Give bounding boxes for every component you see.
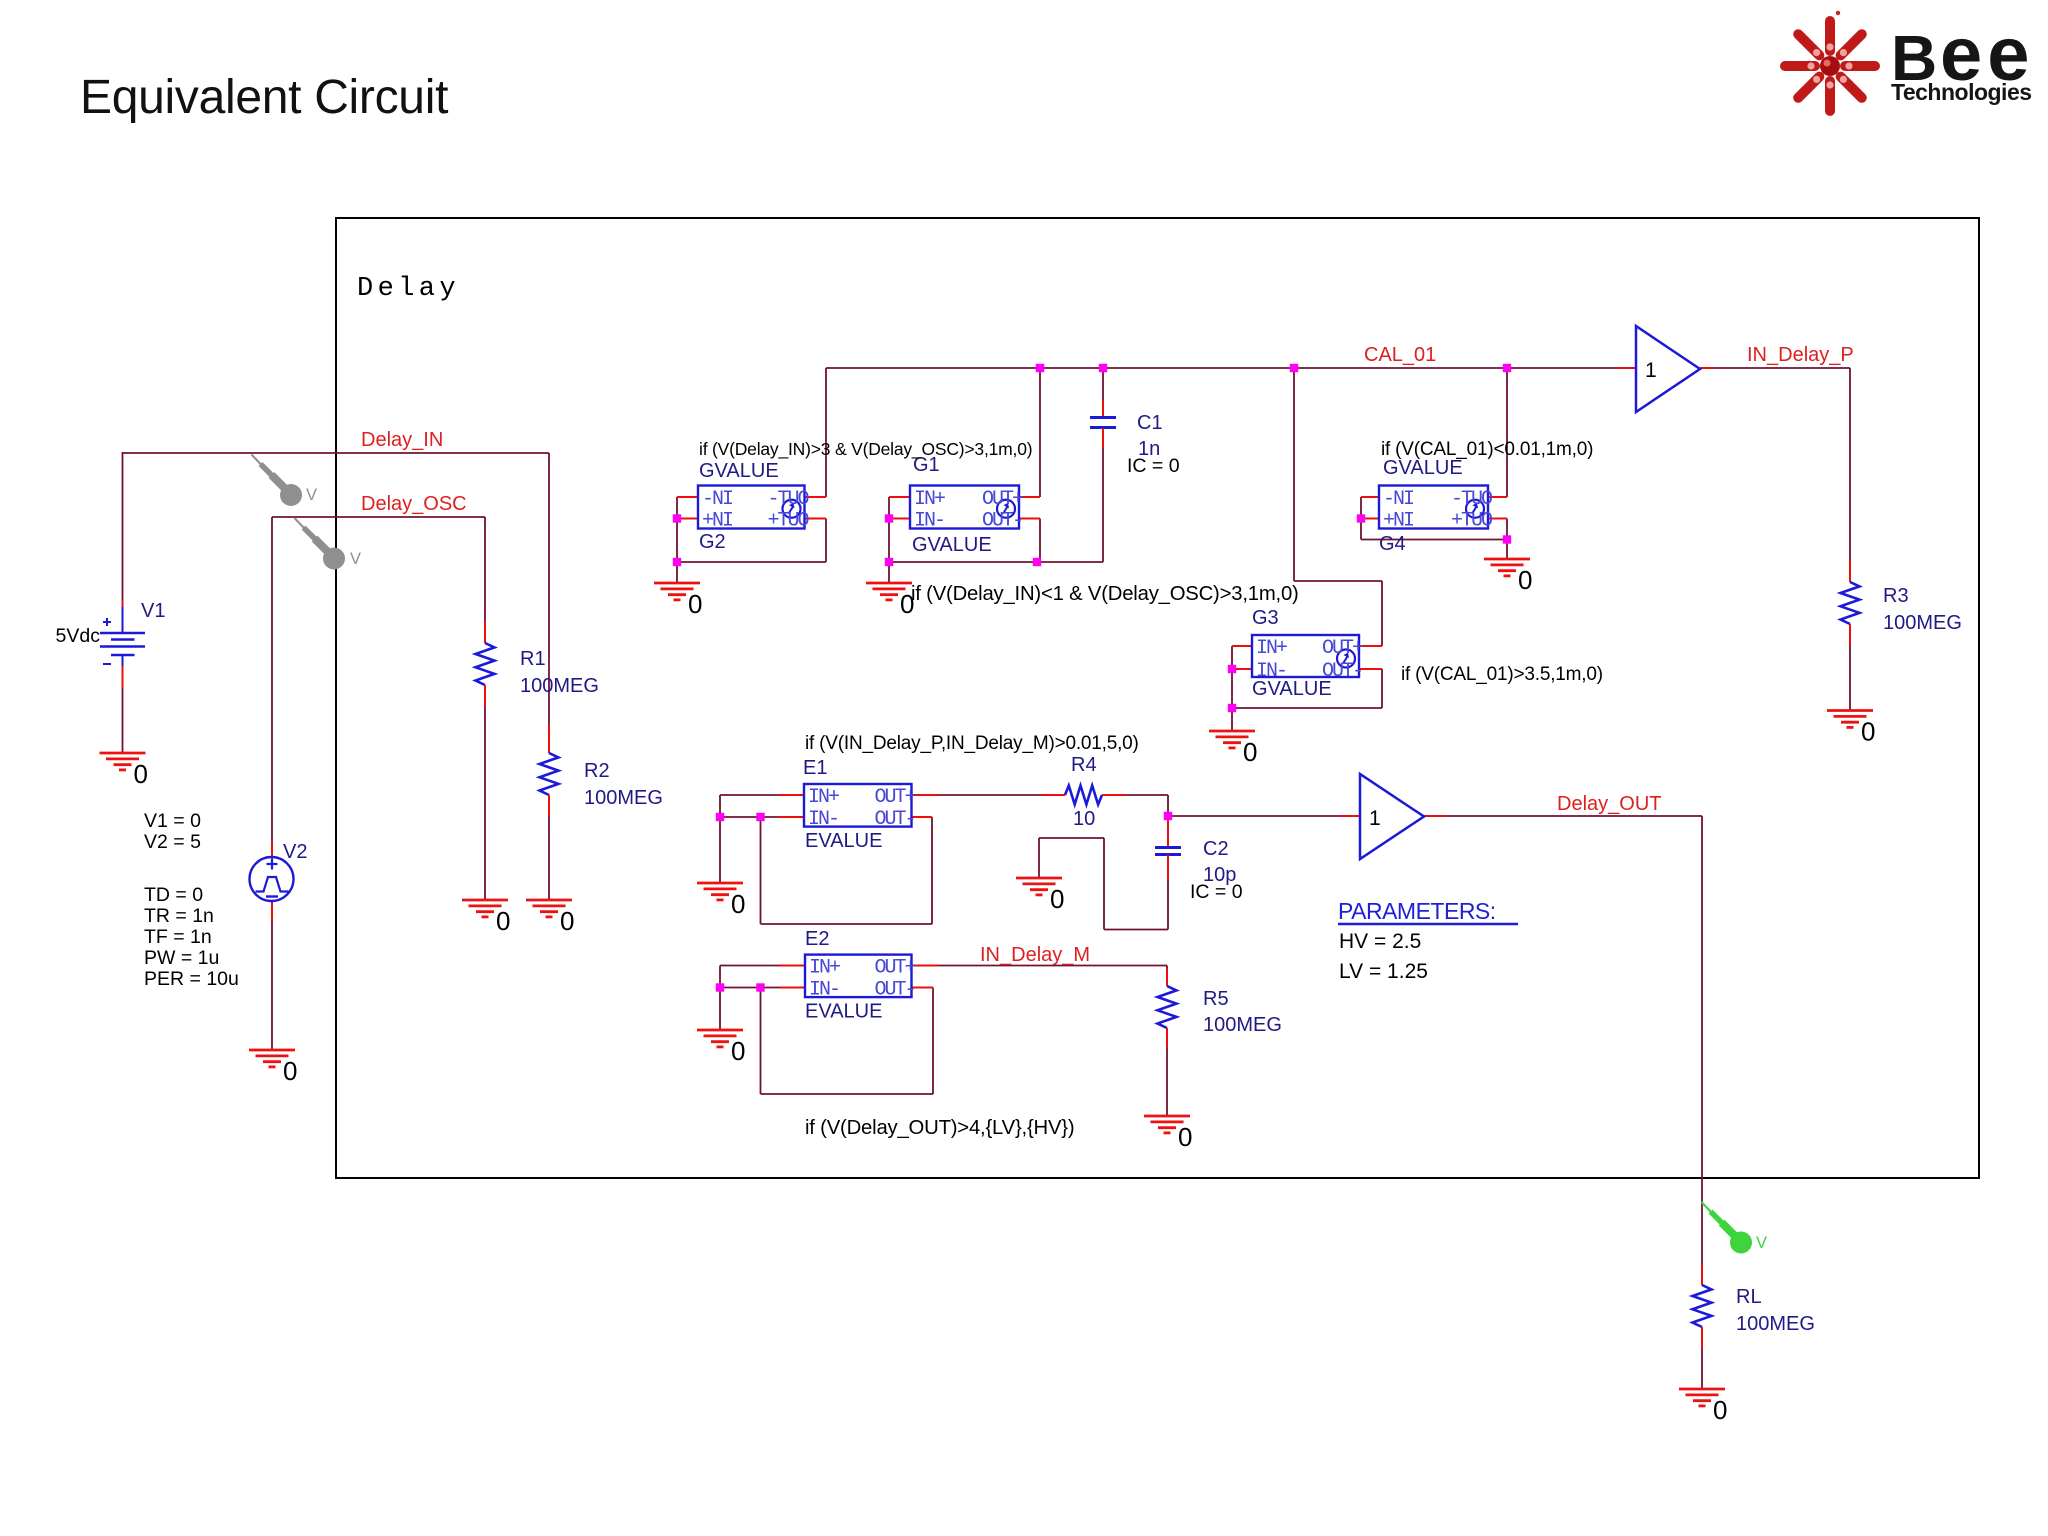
svg-text:1: 1 [1645,359,1657,382]
svg-text:IN+: IN+ [808,786,839,809]
svg-text:Delay_OUT: Delay_OUT [1557,793,1661,815]
svg-text:0: 0 [1050,884,1064,914]
svg-text:PARAMETERS:: PARAMETERS: [1338,898,1496,924]
svg-text:if (V(CAL_01)<0.01,1m,0): if (V(CAL_01)<0.01,1m,0) [1381,439,1593,460]
svg-text:0: 0 [688,589,702,619]
svg-text:IC = 0: IC = 0 [1190,881,1243,903]
svg-text:1: 1 [1369,807,1381,830]
svg-text:IN_Delay_M: IN_Delay_M [980,944,1090,966]
svg-text:TR = 1n: TR = 1n [144,905,214,927]
svg-text:R1: R1 [520,648,546,670]
svg-text:V: V [350,550,361,568]
svg-text:100MEG: 100MEG [520,675,599,697]
svg-text:if (V(IN_Delay_P,IN_Delay_M)>0: if (V(IN_Delay_P,IN_Delay_M)>0.01,5,0) [805,733,1139,754]
svg-text:OUT+: OUT+ [1322,637,1363,660]
svg-text:GVALUE: GVALUE [699,460,779,482]
svg-text:Equivalent Circuit: Equivalent Circuit [80,71,448,124]
svg-text:E2: E2 [805,928,829,950]
svg-text:V: V [1756,1234,1767,1252]
svg-text:V1 = 0: V1 = 0 [144,810,201,832]
svg-text:IN-: IN- [808,808,838,831]
svg-text:C2: C2 [1203,838,1229,860]
svg-text:IN+: IN+ [1256,637,1287,660]
svg-text:OUT+: OUT+ [874,957,915,980]
svg-text:EVALUE: EVALUE [805,1001,882,1023]
svg-text:0: 0 [1518,565,1532,595]
svg-text:G4: G4 [1379,533,1406,555]
svg-text:IN_Delay_P: IN_Delay_P [1747,344,1854,366]
svg-text:0: 0 [134,759,148,789]
svg-text:100MEG: 100MEG [1203,1014,1282,1036]
svg-text:GVALUE: GVALUE [912,534,992,556]
svg-text:+NI: +NI [702,510,733,533]
svg-text:IN-: IN- [914,510,944,533]
svg-text:EVALUE: EVALUE [805,830,882,852]
svg-text:V: V [306,486,317,504]
svg-text:0: 0 [283,1056,297,1086]
svg-text:100MEG: 100MEG [584,787,663,809]
svg-text:CAL_01: CAL_01 [1364,344,1436,366]
svg-text:OUT-: OUT- [1453,488,1493,511]
svg-text:0: 0 [1861,717,1875,747]
svg-text:0: 0 [1178,1122,1192,1152]
svg-text:-NI: -NI [1383,488,1414,511]
svg-text:0: 0 [1243,737,1257,767]
svg-text:Delay_IN: Delay_IN [361,429,443,451]
svg-text:IN-: IN- [809,979,839,1002]
svg-text:100MEG: 100MEG [1736,1313,1815,1335]
svg-text:if (V(Delay_OUT)>4,{LV},{HV}): if (V(Delay_OUT)>4,{LV},{HV}) [805,1117,1074,1139]
svg-text:R3: R3 [1883,585,1909,607]
svg-text:C1: C1 [1137,412,1163,434]
svg-text:IC = 0: IC = 0 [1127,455,1180,477]
svg-text:GVALUE: GVALUE [1252,678,1332,700]
svg-text:if (V(CAL_01)>3.5,1m,0): if (V(CAL_01)>3.5,1m,0) [1401,664,1603,685]
svg-text:OUT-: OUT- [874,979,914,1002]
svg-text:G2: G2 [699,531,726,553]
svg-text:0: 0 [731,889,745,919]
svg-text:OUT+: OUT+ [874,786,915,809]
svg-text:R2: R2 [584,760,610,782]
svg-text:OUT+: OUT+ [768,510,809,533]
svg-text:OUT-: OUT- [874,808,914,831]
svg-text:R5: R5 [1203,988,1229,1010]
svg-text:PW = 1u: PW = 1u [144,947,219,969]
svg-text:IN+: IN+ [914,488,945,511]
svg-text:TD = 0: TD = 0 [144,884,203,906]
svg-text:LV = 1.25: LV = 1.25 [1339,960,1428,983]
svg-text:if (V(Delay_IN)<1 & V(Delay_OS: if (V(Delay_IN)<1 & V(Delay_OSC)>3,1m,0) [911,583,1299,605]
svg-text:OUT+: OUT+ [982,488,1023,511]
svg-text:100MEG: 100MEG [1883,612,1962,634]
svg-text:10: 10 [1073,808,1095,830]
svg-text:OUT-: OUT- [769,488,809,511]
svg-text:HV = 2.5: HV = 2.5 [1339,930,1421,953]
svg-text:V2 = 5: V2 = 5 [144,831,201,853]
svg-text:V2: V2 [283,841,307,863]
svg-text:R4: R4 [1071,754,1097,776]
svg-text:PER = 10u: PER = 10u [144,968,239,990]
svg-text:Technologies: Technologies [1891,79,2032,105]
svg-text:Delay_OSC: Delay_OSC [361,493,467,515]
svg-text:IN+: IN+ [809,957,840,980]
svg-text:V1: V1 [141,600,165,622]
svg-text:0: 0 [1713,1395,1727,1425]
svg-text:0: 0 [731,1036,745,1066]
svg-text:-NI: -NI [702,488,733,511]
svg-text:TF = 1n: TF = 1n [144,926,212,948]
svg-text:G3: G3 [1252,607,1279,629]
svg-text:Delay: Delay [357,274,460,304]
svg-text:OUT+: OUT+ [1452,510,1493,533]
svg-text:E1: E1 [803,757,827,779]
svg-text:GVALUE: GVALUE [1383,457,1463,479]
svg-text:OUT-: OUT- [982,510,1022,533]
svg-text:if (V(Delay_IN)>3 & V(Delay_OS: if (V(Delay_IN)>3 & V(Delay_OSC)>3,1m,0) [699,439,1032,460]
svg-text:5Vdc: 5Vdc [56,625,101,647]
svg-text:0: 0 [496,906,510,936]
svg-text:0: 0 [560,906,574,936]
svg-text:RL: RL [1736,1286,1762,1308]
svg-text:+NI: +NI [1383,510,1414,533]
